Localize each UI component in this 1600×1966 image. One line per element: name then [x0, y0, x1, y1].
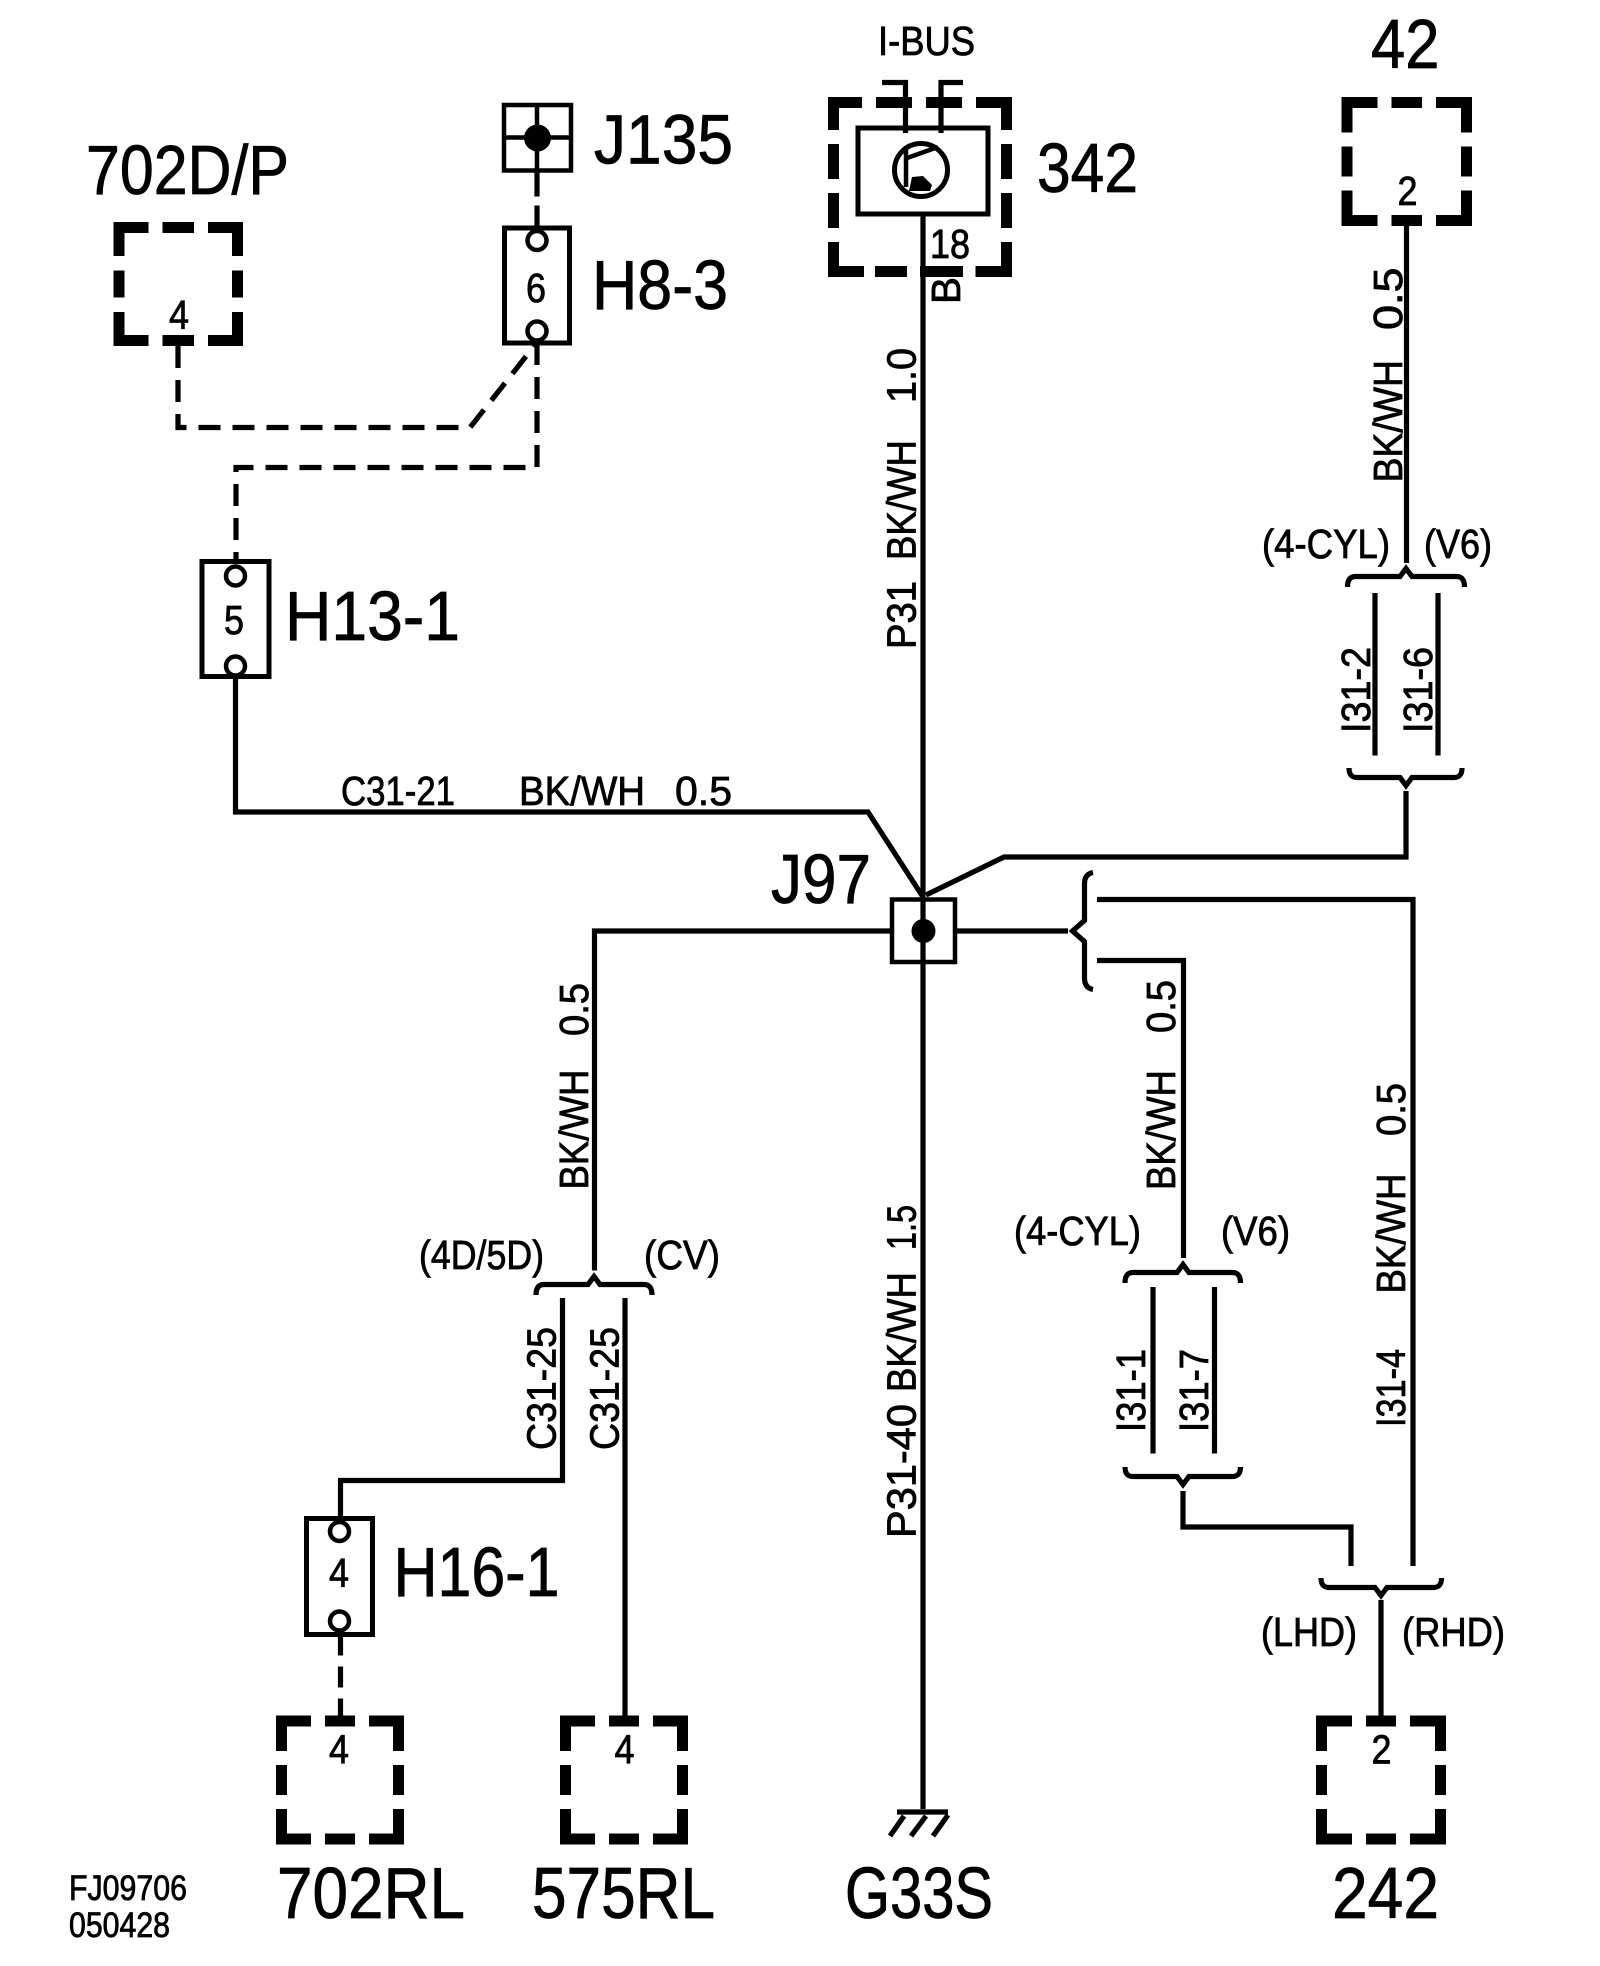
svg-text:I31-4: I31-4: [1368, 1349, 1414, 1427]
inner box of 342: [858, 128, 988, 214]
svg-text:2: 2: [1372, 1727, 1392, 1773]
svg-text:5: 5: [224, 597, 244, 643]
splice J135: [504, 105, 571, 171]
wire 42 down: [1404, 226, 1409, 563]
brace upper merge: [1349, 768, 1462, 786]
connector H16-1: [307, 1519, 373, 1635]
svg-text:I-BUS: I-BUS: [878, 18, 975, 64]
svg-text:H8-3: H8-3: [592, 246, 728, 324]
wire main vertical P31: [920, 214, 925, 1809]
connector H8-3: [505, 228, 570, 343]
brace lower split: [1125, 1265, 1241, 1284]
svg-text:050428: 050428: [69, 1906, 170, 1945]
wire C31-21 from H13-1 to J97: [236, 677, 924, 898]
svg-text:BK/WH: BK/WH: [879, 440, 925, 560]
svg-text:C31-25: C31-25: [582, 1327, 628, 1450]
svg-text:BK/WH: BK/WH: [1365, 360, 1411, 483]
brace upper split: [1348, 569, 1465, 588]
svg-text:BK/WH: BK/WH: [1138, 1070, 1184, 1190]
connector 702RL dashed box: [276, 1716, 404, 1845]
icon in 342 (gauge): [895, 144, 948, 197]
svg-text:C31-21: C31-21: [341, 768, 455, 814]
connector H13-1: [202, 562, 269, 677]
dashed wire 702D/P to H8-3: [178, 345, 535, 428]
wire I31-6 line: [1435, 593, 1440, 756]
svg-text:(4-CYL): (4-CYL): [1262, 521, 1390, 567]
svg-text:4: 4: [169, 292, 189, 338]
ground G33S symbol: [890, 1812, 948, 1836]
svg-text:1.0: 1.0: [879, 348, 925, 403]
wire merge to LHD brace: [1183, 1491, 1351, 1566]
brace 4D/5D split: [536, 1277, 652, 1296]
svg-text:2: 2: [1398, 168, 1418, 214]
I-BUS stub right: [941, 83, 963, 134]
brace lower merge: [1125, 1467, 1241, 1485]
svg-text:P31-40: P31-40: [879, 1404, 925, 1538]
svg-text:P31: P31: [879, 581, 925, 649]
svg-text:(V6): (V6): [1221, 1208, 1290, 1254]
svg-text:J135: J135: [594, 101, 733, 179]
wire I31-1 line: [1150, 1287, 1155, 1454]
wire LHD brace to 242: [1378, 1600, 1383, 1726]
svg-text:I31-7: I31-7: [1171, 1349, 1217, 1432]
svg-text:I31-2: I31-2: [1333, 647, 1379, 733]
I-BUS stub left: [882, 83, 906, 134]
svg-text:FJ09706: FJ09706: [69, 1869, 187, 1908]
svg-text:(V6): (V6): [1424, 521, 1492, 567]
wire top arm to RHD: [1097, 900, 1413, 1567]
svg-text:342: 342: [1037, 129, 1138, 207]
node 342 (I-BUS unit) dashed box: [828, 97, 1012, 277]
wire from merge to J97: [926, 791, 1406, 895]
svg-text:0.5: 0.5: [1368, 1083, 1414, 1136]
svg-text:4: 4: [615, 1727, 635, 1773]
svg-text:575RL: 575RL: [532, 1854, 715, 1934]
svg-text:6: 6: [526, 265, 546, 311]
svg-text:0.5: 0.5: [675, 768, 732, 814]
dashed wire H16-1 to 702RL: [338, 1635, 343, 1727]
svg-text:BK/WH: BK/WH: [519, 768, 645, 814]
svg-text:242: 242: [1332, 1854, 1439, 1934]
connector 702D/P dashed box: [114, 222, 244, 346]
svg-text:(4D/5D): (4D/5D): [419, 1232, 544, 1278]
junction J97: [892, 900, 955, 963]
svg-text:0.5: 0.5: [551, 983, 597, 1036]
svg-text:G33S: G33S: [845, 1854, 993, 1934]
svg-text:0.5: 0.5: [1138, 980, 1184, 1033]
svg-text:I31-6: I31-6: [1395, 647, 1441, 733]
brace at J97 right: [1073, 873, 1094, 990]
connector 42 dashed box: [1342, 97, 1473, 226]
svg-text:BK/WH: BK/WH: [879, 1272, 925, 1392]
wire C31-25 CV line: [622, 1298, 627, 1726]
wire I31-2 line: [1372, 593, 1377, 756]
svg-text:BK/WH: BK/WH: [551, 1070, 597, 1190]
dashed wire H8-3 to H13-1: [236, 343, 537, 562]
svg-text:42: 42: [1371, 5, 1440, 83]
wire J97 right branch: [955, 928, 1068, 933]
brace LHD/RHD: [1321, 1578, 1442, 1596]
svg-text:702RL: 702RL: [277, 1854, 465, 1934]
svg-text:BK/WH: BK/WH: [1368, 1174, 1414, 1294]
connector 575RL dashed box: [560, 1716, 688, 1845]
svg-text:C31-25: C31-25: [519, 1327, 565, 1450]
connector 242 dashed box: [1316, 1716, 1446, 1845]
wire I31-7 line: [1212, 1287, 1217, 1454]
wire C31-25 4D/5D line: [341, 1298, 563, 1520]
svg-text:18: 18: [930, 221, 970, 267]
svg-text:(CV): (CV): [644, 1232, 720, 1278]
svg-text:4: 4: [329, 1550, 349, 1596]
svg-text:0.5: 0.5: [1365, 268, 1411, 331]
svg-text:(RHD): (RHD): [1402, 1609, 1505, 1655]
svg-text:(4-CYL): (4-CYL): [1014, 1208, 1141, 1254]
svg-text:702D/P: 702D/P: [86, 131, 289, 209]
wire J97 left branch: [595, 931, 893, 1271]
svg-text:(LHD): (LHD): [1261, 1609, 1357, 1655]
wire bottom arm: [1097, 961, 1184, 1259]
svg-text:1.5: 1.5: [879, 1205, 925, 1250]
wire J135 to H8-3: [534, 171, 539, 233]
svg-text:4: 4: [329, 1727, 349, 1773]
svg-text:J97: J97: [771, 840, 871, 918]
svg-text:H16-1: H16-1: [394, 1533, 560, 1611]
svg-text:I31-1: I31-1: [1108, 1349, 1154, 1432]
svg-text:B: B: [923, 277, 969, 304]
svg-text:H13-1: H13-1: [285, 577, 460, 655]
